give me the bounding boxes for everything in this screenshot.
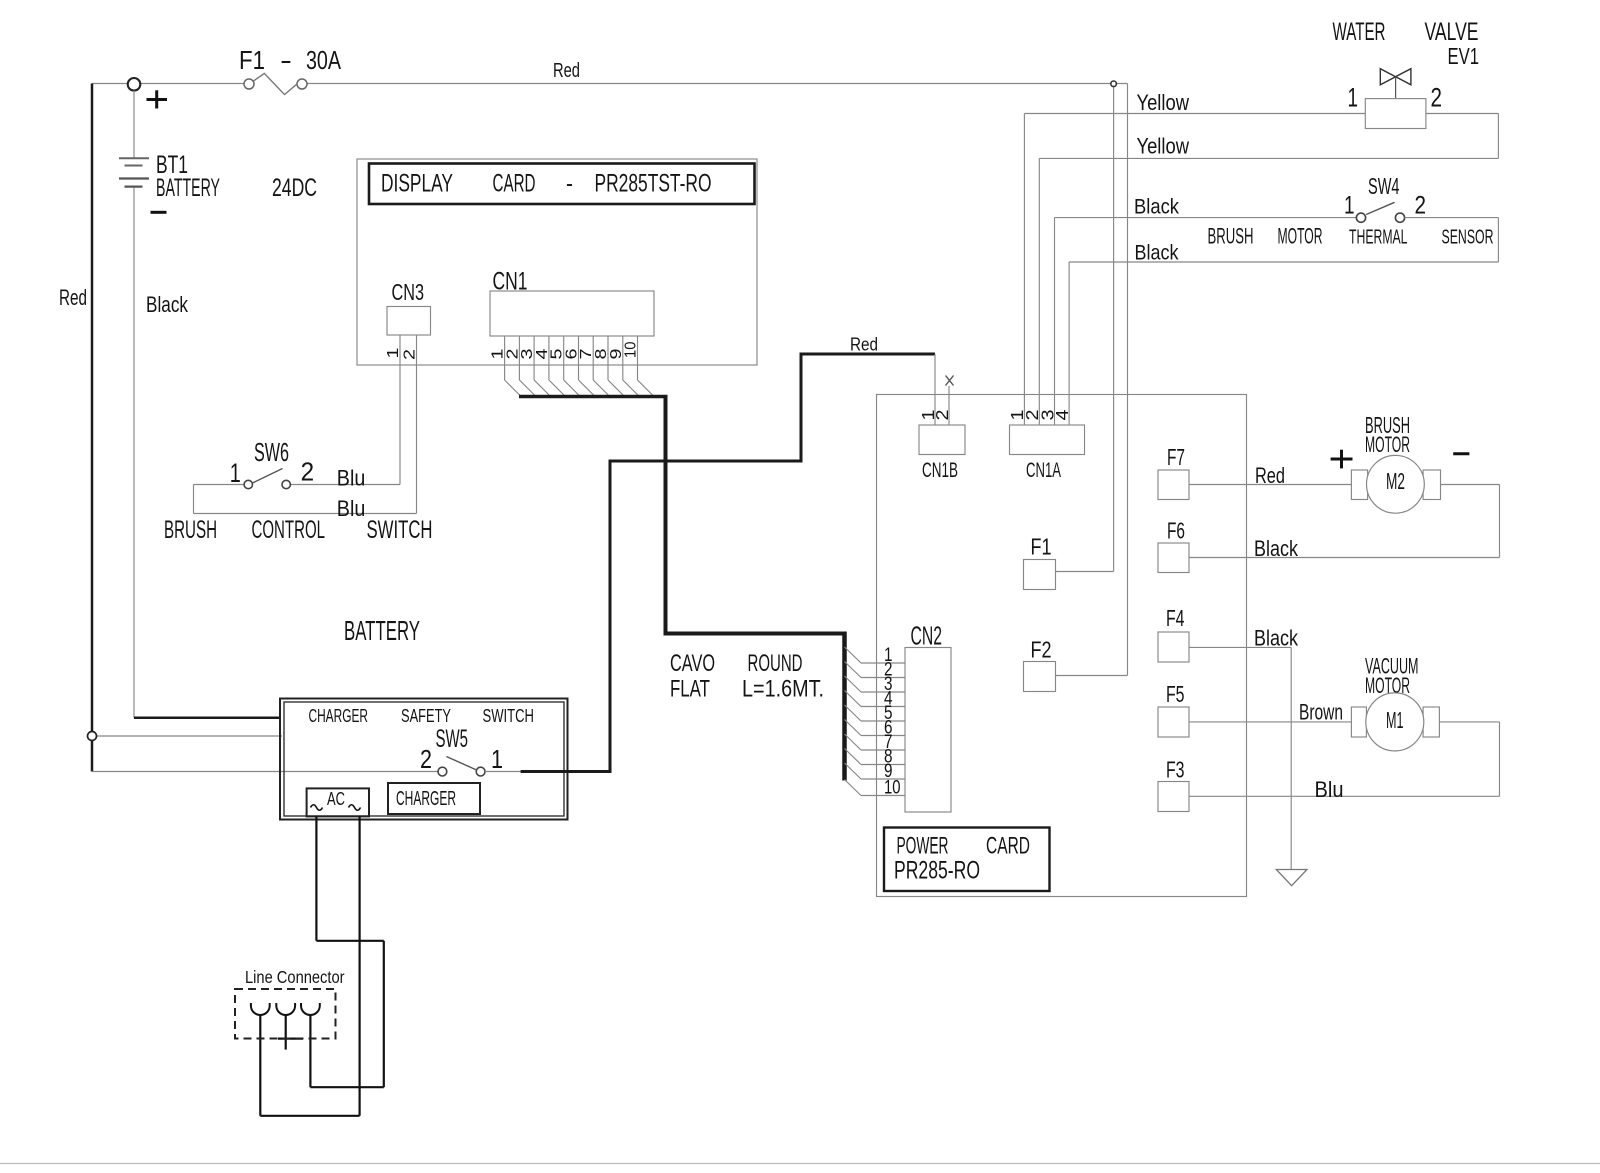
svg-text:CN1A: CN1A bbox=[1026, 459, 1062, 482]
svg-text:CN1B: CN1B bbox=[922, 459, 958, 482]
svg-text:SENSOR: SENSOR bbox=[1442, 227, 1494, 249]
svg-text:EV1: EV1 bbox=[1448, 43, 1480, 69]
svg-text:F3: F3 bbox=[1166, 757, 1185, 783]
svg-text:2: 2 bbox=[932, 410, 952, 421]
svg-text:1: 1 bbox=[230, 458, 241, 488]
svg-text:Black: Black bbox=[1134, 196, 1179, 219]
svg-text:SWITCH: SWITCH bbox=[367, 517, 433, 544]
svg-text:F4: F4 bbox=[1166, 605, 1185, 631]
svg-text:F6: F6 bbox=[1167, 518, 1185, 544]
svg-text:BATTERY: BATTERY bbox=[344, 615, 420, 646]
svg-text:DISPLAY: DISPLAY bbox=[381, 170, 453, 198]
svg-text:PR285-RO: PR285-RO bbox=[894, 858, 980, 885]
svg-text:SW4: SW4 bbox=[1368, 173, 1400, 199]
svg-text:Black: Black bbox=[1254, 626, 1298, 651]
svg-text:CHARGER: CHARGER bbox=[396, 788, 456, 810]
svg-text:Brown: Brown bbox=[1299, 700, 1343, 725]
svg-text:THERMAL: THERMAL bbox=[1349, 227, 1408, 249]
svg-text:Red: Red bbox=[59, 285, 87, 310]
svg-text:1: 1 bbox=[1344, 193, 1355, 220]
svg-text:F7: F7 bbox=[1167, 444, 1185, 470]
svg-text:-: - bbox=[280, 45, 292, 75]
svg-text:Black: Black bbox=[1135, 241, 1179, 264]
svg-text:F2: F2 bbox=[1031, 637, 1052, 663]
svg-text:ROUND: ROUND bbox=[748, 650, 803, 677]
svg-text:4: 4 bbox=[1052, 409, 1072, 420]
svg-text:BATTERY: BATTERY bbox=[156, 174, 220, 202]
svg-text:CAVO: CAVO bbox=[670, 650, 715, 677]
svg-text:CHARGER: CHARGER bbox=[309, 706, 369, 727]
svg-text:Yellow: Yellow bbox=[1137, 134, 1190, 159]
svg-text:1: 1 bbox=[491, 744, 503, 774]
svg-text:SW6: SW6 bbox=[254, 437, 289, 467]
svg-text:2: 2 bbox=[1431, 83, 1443, 113]
svg-text:Blu: Blu bbox=[337, 466, 366, 491]
svg-text:CARD: CARD bbox=[493, 170, 536, 198]
svg-text:1: 1 bbox=[1348, 83, 1359, 113]
svg-text:Blu: Blu bbox=[337, 496, 366, 521]
svg-text:Line Connector: Line Connector bbox=[245, 967, 345, 987]
svg-text:FLAT: FLAT bbox=[670, 676, 710, 703]
svg-text:Red: Red bbox=[1255, 463, 1285, 488]
svg-text:CN3: CN3 bbox=[392, 279, 425, 305]
svg-text:M1: M1 bbox=[1386, 707, 1404, 733]
svg-text:SAFETY: SAFETY bbox=[401, 706, 451, 727]
svg-text:WATER: WATER bbox=[1333, 18, 1386, 46]
svg-text:Yellow: Yellow bbox=[1137, 90, 1190, 115]
svg-text:BRUSH: BRUSH bbox=[164, 517, 217, 544]
svg-text:Red: Red bbox=[553, 60, 580, 82]
svg-text:24DC: 24DC bbox=[272, 174, 317, 202]
svg-text:POWER: POWER bbox=[897, 833, 949, 860]
svg-text:Black: Black bbox=[1254, 536, 1298, 561]
svg-text:F1: F1 bbox=[239, 45, 265, 75]
svg-text:30A: 30A bbox=[306, 45, 341, 75]
svg-text:L=1.6MT.: L=1.6MT. bbox=[742, 676, 824, 703]
svg-text:F5: F5 bbox=[1166, 681, 1185, 707]
svg-text:CONTROL: CONTROL bbox=[252, 517, 326, 544]
svg-text:M2: M2 bbox=[1386, 468, 1405, 494]
svg-text:AC: AC bbox=[327, 789, 345, 810]
svg-text:PR285TST-RO: PR285TST-RO bbox=[595, 170, 712, 198]
svg-text:BRUSH: BRUSH bbox=[1208, 224, 1254, 249]
svg-text:SW5: SW5 bbox=[436, 726, 469, 753]
svg-text:Blu: Blu bbox=[1315, 777, 1344, 802]
svg-text:CN2: CN2 bbox=[911, 621, 943, 651]
svg-text:Red: Red bbox=[850, 335, 878, 356]
svg-text:2: 2 bbox=[1415, 193, 1427, 220]
svg-text:2: 2 bbox=[420, 744, 432, 774]
svg-text:CARD: CARD bbox=[986, 833, 1030, 860]
svg-text:MOTOR: MOTOR bbox=[1278, 224, 1323, 249]
svg-text:10: 10 bbox=[623, 341, 640, 358]
svg-text:10: 10 bbox=[884, 776, 901, 798]
svg-text:2: 2 bbox=[402, 349, 419, 360]
svg-text:MOTOR: MOTOR bbox=[1365, 432, 1410, 457]
svg-text:-: - bbox=[566, 170, 573, 198]
svg-text:2: 2 bbox=[301, 457, 315, 487]
svg-text:1: 1 bbox=[385, 347, 402, 358]
svg-text:Black: Black bbox=[146, 292, 188, 317]
svg-text:F1: F1 bbox=[1031, 534, 1052, 560]
svg-text:VALVE: VALVE bbox=[1425, 18, 1479, 46]
svg-text:SWITCH: SWITCH bbox=[483, 706, 535, 727]
